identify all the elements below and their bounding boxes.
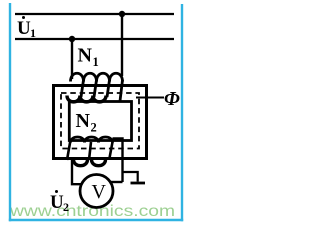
svg-text:N: N [76, 110, 91, 132]
svg-text:Φ: Φ [164, 88, 180, 110]
svg-text:U: U [17, 18, 31, 39]
svg-text:2: 2 [63, 200, 69, 214]
svg-text:U: U [50, 192, 64, 213]
svg-text:V: V [92, 181, 107, 203]
svg-text:1: 1 [30, 26, 36, 40]
svg-text:2: 2 [91, 121, 97, 135]
svg-text:1: 1 [93, 55, 99, 69]
svg-text:N: N [78, 45, 93, 67]
